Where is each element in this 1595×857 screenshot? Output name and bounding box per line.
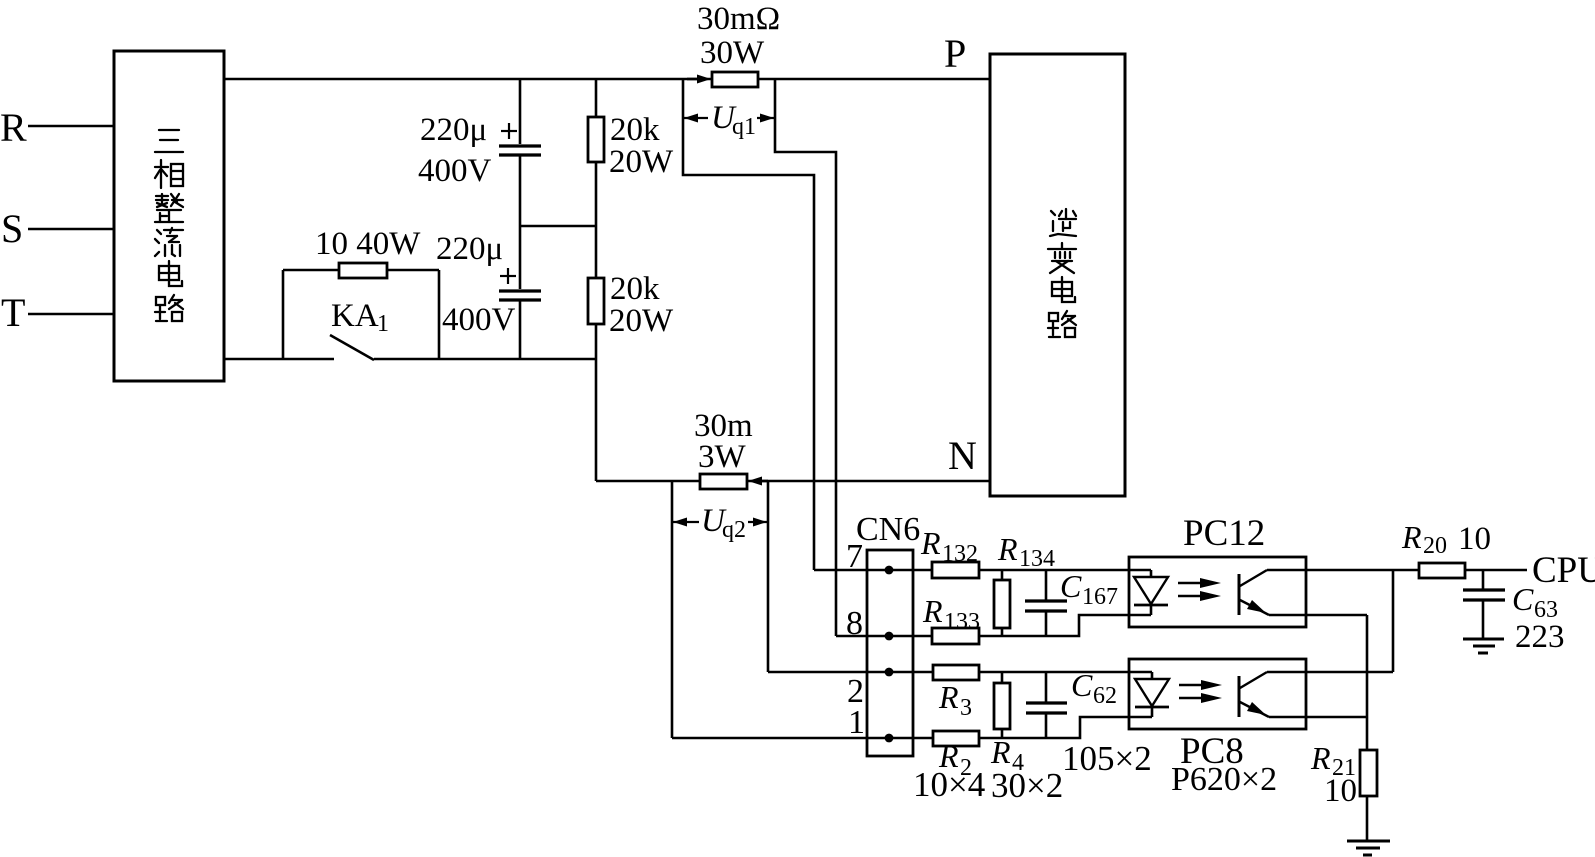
svg-text:134: 134 — [1019, 546, 1055, 572]
char lu (circuit/road) — [155, 295, 183, 321]
current arrow into Rs1 — [687, 78, 700, 81]
ground under C63 — [1463, 638, 1504, 641]
capacitor C167 — [1045, 570, 1048, 600]
wire CN6 pin8 row with step up to PC12 cathode — [836, 615, 1151, 636]
wire R20 to CPU — [1465, 569, 1527, 572]
svg-text:30mΩ: 30mΩ — [697, 1, 780, 37]
svg-text:105×2: 105×2 — [1062, 739, 1152, 778]
optocoupler PC12 box — [1129, 557, 1306, 627]
svg-text:CPU: CPU — [1532, 550, 1595, 591]
wire CN6 pin1 row with step up to PC8 cathode — [672, 717, 1152, 738]
svg-text:C: C — [1512, 581, 1534, 617]
svg-text:q1: q1 — [732, 114, 756, 140]
dimension arrows Uq2 — [672, 521, 699, 523]
svg-text:20W: 20W — [609, 303, 674, 339]
svg-text:400V: 400V — [418, 153, 492, 189]
polarity plus sign C_b — [500, 275, 516, 277]
switch KA1 blade — [330, 335, 374, 360]
wire capacitor midpoint tie — [520, 225, 596, 228]
svg-text:P: P — [944, 31, 966, 76]
wire Uq2 sense right (to CN6 pin 2) — [767, 481, 770, 672]
wire Uq2 sense left (to CN6 pin 1) — [671, 481, 674, 738]
wire R input — [28, 125, 114, 128]
resistor R133 — [932, 628, 979, 644]
wire KA1 branch top right — [387, 269, 439, 272]
svg-text:20: 20 — [1423, 533, 1447, 559]
svg-text:q2: q2 — [722, 517, 746, 543]
rectifier block U_rect (three-phase rectifier) — [114, 51, 224, 381]
capacitor C_b 220u 400V plates — [499, 289, 541, 292]
ground under R21 — [1347, 840, 1390, 843]
svg-text:30×2: 30×2 — [991, 766, 1063, 805]
wire PC12 collector out to R20 — [1267, 569, 1419, 572]
wire CN6 pin2 row — [768, 671, 1152, 674]
wire between capacitors — [519, 156, 522, 289]
wire Uq1 sense left (to CN6 pin 7) — [683, 79, 814, 570]
svg-text:C: C — [1071, 667, 1093, 703]
svg-text:PC12: PC12 — [1183, 513, 1265, 554]
char dian (electric) — [159, 261, 182, 286]
wire emitter tie vertical — [1366, 615, 1369, 717]
char bian (change) — [1048, 243, 1076, 273]
char liu (flow) — [155, 228, 183, 256]
PC8 LED — [1135, 679, 1169, 706]
char dian (electric) — [1052, 277, 1075, 302]
wire T input — [28, 313, 114, 316]
svg-text:7: 7 — [846, 538, 863, 575]
wire bottom rail right segment — [374, 358, 596, 361]
svg-text:S: S — [1, 206, 23, 251]
wire KA1 branch top left — [283, 269, 339, 272]
svg-text:KA: KA — [331, 298, 379, 334]
PC12 light arrows — [1178, 582, 1205, 584]
char xiang (phase) — [155, 160, 183, 188]
wire bleeder bus top — [595, 79, 598, 117]
svg-text:R: R — [990, 734, 1011, 770]
wire bottom rail left segment — [224, 358, 334, 361]
PC8 light arrows — [1179, 684, 1206, 686]
char zheng (rectify) — [155, 194, 183, 222]
wire PC8 emitter out — [1269, 716, 1367, 719]
resistor 10 40W — [339, 263, 387, 278]
svg-text:R: R — [938, 679, 959, 715]
pin 1 junction dot — [885, 734, 894, 743]
wire PC12 emitter out — [1269, 614, 1367, 617]
svg-text:R: R — [922, 593, 943, 629]
svg-text:10: 10 — [1324, 773, 1357, 809]
svg-text:220μ: 220μ — [436, 231, 503, 267]
capacitor C62 — [1045, 672, 1048, 702]
svg-text:10: 10 — [1458, 521, 1491, 557]
capacitor C63 — [1482, 570, 1485, 589]
svg-text:20W: 20W — [609, 144, 674, 180]
resistor R_b2 20k 20W — [588, 278, 604, 324]
wire capacitor chain bottom stub — [519, 301, 522, 359]
svg-text:1: 1 — [377, 311, 389, 337]
svg-text:P620×2: P620×2 — [1171, 761, 1277, 798]
resistor R2 — [933, 731, 979, 746]
wire KA1 branch left vertical — [282, 270, 285, 359]
svg-text:167: 167 — [1082, 584, 1118, 610]
svg-text:62: 62 — [1093, 683, 1117, 709]
resistor R3 — [933, 665, 979, 680]
svg-text:132: 132 — [942, 541, 978, 567]
svg-text:R: R — [920, 525, 941, 561]
resistor R4 (vertical) — [1001, 672, 1004, 683]
svg-text:220μ: 220μ — [420, 112, 487, 148]
svg-text:R: R — [1401, 519, 1422, 555]
rectifier block vertical Chinese text (drawn glyphs) — [155, 130, 183, 321]
svg-text:8: 8 — [846, 605, 863, 642]
inverter block vertical Chinese text (drawn glyphs) — [1048, 209, 1076, 337]
svg-text:133: 133 — [944, 609, 980, 635]
char lu (circuit/road) — [1048, 311, 1076, 337]
wire bleeder bus middle — [595, 162, 598, 278]
svg-text:CN6: CN6 — [856, 511, 920, 548]
resistor R134 (vertical) — [1001, 570, 1004, 580]
shunt resistor Rs1 30mohm 30W — [712, 72, 758, 87]
inverter block (inverter circuit) — [990, 54, 1125, 496]
current arrow into Rs2 — [758, 480, 768, 483]
pin 8 junction dot — [885, 632, 894, 641]
svg-text:3W: 3W — [698, 439, 747, 475]
char ni (invert) — [1050, 209, 1076, 236]
wire Uq1 sense right (to CN6 pin 8) — [775, 79, 836, 636]
svg-text:C: C — [1060, 568, 1082, 604]
PC12 LED — [1134, 577, 1168, 604]
PC8 phototransistor — [1238, 676, 1241, 717]
svg-text:30W: 30W — [700, 35, 765, 71]
svg-text:3: 3 — [960, 695, 972, 721]
svg-text:10×4: 10×4 — [913, 765, 985, 804]
svg-text:R: R — [0, 105, 27, 150]
pin 2 junction dot — [885, 668, 894, 677]
svg-text:T: T — [1, 290, 25, 335]
svg-text:N: N — [948, 433, 977, 478]
svg-text:20k: 20k — [610, 271, 660, 307]
wire CN6 pin7 row — [814, 569, 1151, 572]
char san (three) — [155, 130, 183, 152]
resistor R21 (vertical) — [1366, 717, 1369, 750]
svg-text:R: R — [997, 531, 1018, 567]
wire bleeder bus bottom — [595, 324, 598, 481]
svg-text:400V: 400V — [442, 302, 516, 338]
svg-text:20k: 20k — [610, 112, 660, 148]
wire KA1 branch right vertical — [438, 270, 441, 359]
wire PC8 collector out — [1267, 671, 1393, 674]
optocoupler PC8 box — [1129, 659, 1306, 729]
resistor R20 — [1419, 563, 1465, 578]
svg-text:1: 1 — [848, 704, 865, 741]
dimension arrows Uq1 — [683, 117, 708, 119]
wire P rail (top DC bus) — [224, 78, 990, 81]
shunt resistor Rs2 30m 3W — [700, 474, 747, 489]
capacitor C_a 220u 400V plates — [499, 144, 541, 147]
svg-text:223: 223 — [1515, 619, 1565, 655]
wire capacitor chain top stub — [519, 79, 522, 144]
resistor R132 — [932, 562, 979, 578]
wire N rail — [596, 480, 990, 483]
polarity plus sign C_a — [501, 130, 517, 132]
pin 7 junction dot — [885, 566, 894, 575]
resistor R_b1 20k 20W — [588, 117, 604, 162]
wire S input — [28, 228, 114, 231]
svg-text:R: R — [1310, 740, 1331, 776]
connector CN6 — [867, 550, 913, 756]
PC12 phototransistor — [1238, 574, 1241, 615]
svg-text:10 40W: 10 40W — [315, 226, 421, 262]
wire collector tie vertical — [1392, 570, 1395, 672]
